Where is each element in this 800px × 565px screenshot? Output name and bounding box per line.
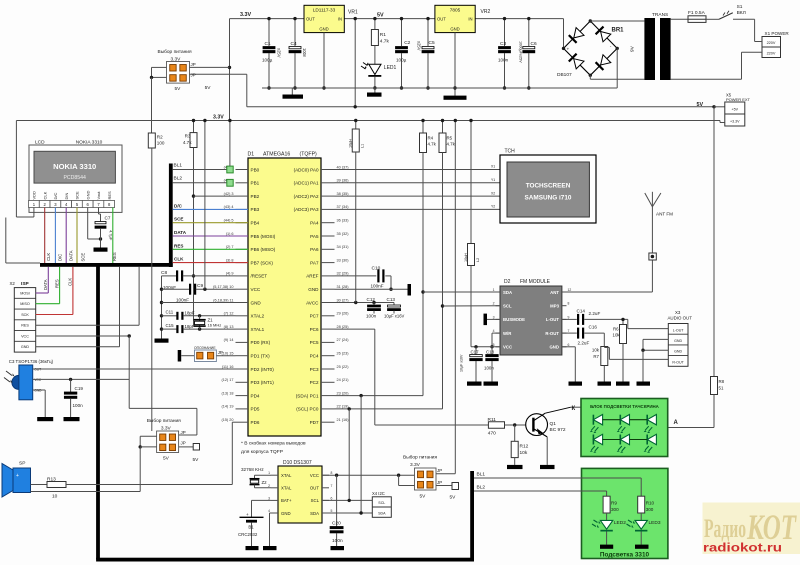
svg-text:AREF: AREF: [306, 274, 318, 279]
regulator VR2 7805: [435, 5, 491, 32]
svg-text:(9) 14: (9) 14: [224, 338, 234, 342]
wire transformer secondary top: [671, 18, 688, 20]
svg-text:OUT: OUT: [306, 17, 315, 22]
node K: [572, 406, 576, 412]
wire BL1 to PB0: [173, 163, 227, 170]
node 3.3V label rail: [213, 115, 224, 121]
svg-text:10µF x16V: 10µF x16V: [460, 354, 464, 372]
resistor R2 100: [148, 133, 165, 148]
crystal Z1 16 MHz: [194, 316, 222, 329]
wire VCC select net: [129, 336, 197, 435]
wire ISP MOSI: [36, 267, 49, 293]
capacitor C3 100n: [498, 17, 511, 90]
svg-text:C9: C9: [197, 283, 203, 289]
svg-text:23 (20): 23 (20): [337, 391, 350, 395]
wire LCD CLK (pin2): [44, 208, 46, 264]
svg-text:DATA: DATA: [69, 250, 74, 261]
svg-text:R-OUT: R-OUT: [545, 331, 559, 336]
svg-text:+3.3V: +3.3V: [730, 120, 740, 124]
svg-text:OUT: OUT: [437, 17, 446, 22]
svg-text:40 (37): 40 (37): [337, 165, 350, 169]
wire TSOP VCC: [33, 378, 130, 381]
capacitor C14 2.2uF: [562, 309, 628, 325]
wire ISP MISO: [36, 267, 60, 304]
wire 3.3V to PB0 pad: [228, 119, 231, 166]
svg-text:300: 300: [646, 507, 654, 512]
svg-text:(ADC3) PA3: (ADC3) PA3: [294, 207, 319, 212]
svg-text:470: 470: [488, 431, 496, 437]
svg-text:Z2: Z2: [262, 480, 268, 485]
svg-text:220V: 220V: [767, 41, 776, 45]
LED LED3: [627, 513, 661, 549]
svg-text:PCD8544: PCD8544: [63, 175, 86, 181]
inductor L2 10uH: [464, 119, 480, 347]
svg-text:AVCC: AVCC: [306, 300, 319, 305]
svg-text:33 (30): 33 (30): [337, 258, 350, 262]
svg-text:PC3: PC3: [310, 367, 319, 372]
svg-text:JP: JP: [191, 73, 196, 78]
svg-text:SCL: SCL: [311, 498, 320, 503]
module backlight 3310 (Подсветка 3310): [582, 468, 668, 558]
svg-text:CLK: CLK: [68, 278, 73, 286]
svg-text:(4) 9: (4) 9: [226, 272, 234, 276]
wire ISP SCK: [36, 267, 73, 315]
svg-text:AUDIO OUT: AUDIO OUT: [668, 315, 693, 320]
svg-text:GND: GND: [21, 345, 30, 349]
svg-text:SDA: SDA: [503, 290, 512, 295]
IC D2 FM MODULE: [500, 279, 562, 355]
svg-text:PB1: PB1: [251, 181, 260, 186]
connector X2 ISP: [10, 281, 36, 352]
resistor R10 300: [638, 478, 655, 513]
svg-text:(13) 18: (13) 18: [221, 391, 233, 395]
svg-text:30 (27): 30 (27): [337, 298, 350, 302]
svg-text:К: К: [572, 406, 576, 412]
svg-text:R5: R5: [447, 136, 453, 141]
switch S1 ВКЛ: [719, 4, 755, 19]
node 5V label top: [377, 12, 384, 18]
svg-text:R9: R9: [611, 501, 617, 506]
svg-text:2.2uF: 2.2uF: [578, 341, 590, 346]
wire jumper to speaker return: [139, 447, 141, 492]
ground bar LED1: [367, 88, 382, 97]
svg-text:GND: GND: [450, 26, 459, 31]
svg-text:ANT: ANT: [550, 290, 559, 295]
svg-text:(6,18,39) 11: (6,18,39) 11: [213, 298, 233, 302]
svg-text:6: 6: [568, 343, 570, 347]
wire SCL down to DS1307: [348, 409, 350, 502]
wire PA2 to touchscreen: [335, 195, 501, 197]
svg-text:(ADC2) PA2: (ADC2) PA2: [294, 194, 319, 199]
svg-text:10k: 10k: [613, 333, 621, 338]
node 3.3V label top: [240, 12, 251, 18]
svg-text:RES: RES: [55, 279, 60, 288]
svg-text:BAT+: BAT+: [281, 498, 292, 503]
svg-text:5V: 5V: [450, 495, 457, 501]
svg-text:+5V: +5V: [732, 108, 739, 112]
svg-text:R3: R3: [185, 134, 191, 139]
svg-text:F1 0.5A: F1 0.5A: [688, 10, 706, 16]
svg-text:100n: 100n: [366, 314, 377, 319]
svg-text:36 (33): 36 (33): [337, 219, 350, 223]
svg-text:(14) 19: (14) 19: [221, 405, 233, 409]
svg-text:VDD: VDD: [32, 191, 37, 200]
svg-text:34 (31): 34 (31): [337, 245, 350, 249]
node wire labels below bus: [43, 278, 73, 290]
svg-text:PD1 (TX): PD1 (TX): [251, 354, 271, 359]
svg-text:PD2 (INT0): PD2 (INT0): [251, 367, 275, 372]
svg-text:8: 8: [331, 471, 333, 475]
module LCD NOKIA 3310: [29, 139, 122, 212]
svg-text:Подсветка 3310: Подсветка 3310: [600, 552, 650, 559]
svg-text:SCL: SCL: [503, 304, 512, 309]
resistor R1 4.7k: [371, 17, 389, 46]
svg-text:PD5: PD5: [251, 407, 260, 412]
capacitor C9 100nF vcc: [162, 283, 236, 303]
wire 3.3V top rail: [230, 18, 564, 20]
wire L-OUT to X3: [628, 319, 669, 328]
svg-text:3: 3: [493, 315, 495, 319]
wire D/C row: [173, 203, 248, 209]
svg-text:POWER EXT: POWER EXT: [726, 97, 751, 102]
capacitor C19 100n: [64, 379, 84, 421]
wire SCL vertical: [441, 153, 444, 409]
svg-text:C18: C18: [486, 350, 495, 355]
svg-text:+: +: [16, 473, 19, 479]
svg-text:JP: JP: [181, 430, 186, 435]
resistor R8 51: [711, 107, 725, 428]
IC D10 pin labels: [268, 471, 332, 516]
wire thick bus BL vertical right of LCD: [169, 164, 173, 268]
svg-text:RES: RES: [174, 243, 183, 248]
svg-text:LCD: LCD: [35, 139, 45, 145]
connector X4 I2C: [372, 491, 391, 517]
svg-text:100n: 100n: [484, 366, 494, 371]
wire 3.3V rail: [16, 121, 724, 123]
svg-text:X2: X2: [10, 281, 16, 286]
capacitor C20 100n: [330, 475, 344, 550]
svg-text:SCL: SCL: [378, 501, 385, 505]
svg-text:NOKIA 3310: NOKIA 3310: [53, 162, 96, 171]
LCD pin labels: [32, 191, 112, 200]
svg-text:100n: 100n: [498, 58, 509, 63]
svg-text:RES: RES: [21, 324, 29, 328]
svg-text:4.7k: 4.7k: [447, 142, 456, 147]
wire DATA row: [173, 230, 248, 236]
svg-text:VCC: VCC: [34, 378, 42, 382]
wire LCD DIN (pin4): [65, 208, 67, 264]
svg-text:RES: RES: [112, 252, 117, 261]
svg-text:XTAL1: XTAL1: [251, 327, 265, 332]
svg-text:100nF: 100nF: [371, 284, 384, 289]
connector X3 AUDIO OUT: [668, 310, 693, 366]
ground bar xtal: [155, 339, 169, 343]
svg-text:4.7k: 4.7k: [428, 142, 437, 147]
svg-text:(43) 4: (43) 4: [224, 205, 234, 209]
svg-text:R4: R4: [428, 136, 434, 141]
capacitor C12 100n: [366, 297, 381, 319]
svg-text:38 (35): 38 (35): [337, 192, 350, 196]
svg-text:300: 300: [611, 507, 619, 512]
IC D2 pin labels: [493, 288, 572, 350]
wire GND row chip: [162, 302, 236, 304]
svg-text:3.3V: 3.3V: [240, 12, 251, 18]
note TQFP: [241, 441, 306, 456]
svg-text:C1: C1: [265, 41, 271, 47]
svg-text:LED2: LED2: [614, 520, 626, 526]
svg-text:PC5: PC5: [310, 340, 319, 345]
svg-text:PA5: PA5: [310, 234, 319, 239]
svg-text:6: 6: [331, 496, 333, 500]
svg-text:PC4: PC4: [310, 354, 319, 359]
svg-text:7805: 7805: [450, 8, 461, 13]
ground rail bar left: [283, 88, 304, 99]
svg-text:ATMEGA16: ATMEGA16: [263, 152, 290, 158]
wire 3.3V drop to jumper: [228, 19, 231, 121]
svg-text:3: 3: [268, 496, 270, 500]
svg-text:PB6 (MISO): PB6 (MISO): [251, 247, 276, 252]
svg-text:5V: 5V: [193, 457, 200, 463]
svg-text:C15: C15: [166, 323, 175, 328]
svg-text:R12: R12: [520, 444, 529, 450]
wire ISP GND: [36, 267, 120, 347]
wire decoupling left vertical: [160, 276, 163, 339]
wire LCD D/C (pin3): [54, 208, 56, 264]
svg-text:ANT FM: ANT FM: [656, 212, 673, 217]
svg-text:C6: C6: [531, 41, 537, 47]
svg-text:3.3V: 3.3V: [410, 462, 421, 468]
svg-text:Выбор питания: Выбор питания: [147, 418, 181, 424]
svg-text:C3: C3: [500, 41, 506, 47]
wire BR1 plus to 7805 IN: [563, 19, 565, 49]
svg-text:5: 5: [331, 509, 333, 513]
svg-text:18pF: 18pF: [185, 324, 195, 329]
svg-text:(SCL) PC0: (SCL) PC0: [296, 407, 319, 412]
svg-text:GND: GND: [319, 26, 328, 31]
svg-text:10: 10: [52, 494, 58, 500]
wire PD6 to speaker net: [232, 422, 235, 484]
IC D1 ATMEGA16 TQFP: [248, 152, 322, 436]
ground FM BUSMODE: [484, 314, 501, 326]
svg-text:VCC: VCC: [310, 473, 319, 478]
svg-text:37 (34): 37 (34): [337, 205, 350, 209]
wire R2 down to lower jumper: [151, 148, 153, 431]
svg-text:PA7: PA7: [310, 260, 319, 265]
wire PA3 to touchscreen: [335, 208, 501, 210]
wire BR1 minus to ground rail: [616, 48, 618, 88]
svg-text:29 (26): 29 (26): [337, 312, 350, 316]
svg-text:CLK: CLK: [46, 253, 51, 261]
svg-text:C10: C10: [372, 266, 381, 272]
svg-text:16 MHz: 16 MHz: [208, 323, 222, 328]
svg-text:PB7 (SCK): PB7 (SCK): [251, 260, 274, 265]
wire BL2 to R9: [474, 485, 607, 491]
svg-text:VR2: VR2: [481, 9, 491, 15]
svg-text:MOSI: MOSI: [20, 292, 29, 296]
svg-text:5V: 5V: [205, 85, 212, 91]
wire FM SDA: [423, 291, 500, 293]
svg-text:DATA: DATA: [43, 279, 48, 290]
svg-text:X3: X3: [675, 310, 681, 315]
resistor R12 10k: [507, 425, 529, 469]
wire SCE row: [173, 217, 248, 223]
svg-text:DATA: DATA: [174, 230, 187, 235]
svg-text:26 (23): 26 (23): [337, 352, 350, 356]
svg-text:R-OUT: R-OUT: [672, 360, 684, 364]
svg-text:DIC: DIC: [58, 254, 63, 261]
svg-text:(5,17,38) 10: (5,17,38) 10: [213, 285, 233, 289]
svg-text:+: +: [246, 512, 249, 517]
svg-text:21 (16): 21 (16): [337, 418, 350, 422]
svg-text:(SDA) PC1: (SDA) PC1: [296, 393, 319, 398]
module backlight block touchscreen (БЛОК ПОДСВЕТКИ ТАЧСКРИНА): [581, 399, 668, 457]
svg-text:Q1: Q1: [550, 421, 557, 427]
ground 7805: [444, 96, 467, 100]
wire FM GND: [562, 347, 582, 386]
wire SDA vertical: [421, 153, 424, 396]
svg-text:(2) 7: (2) 7: [226, 245, 234, 249]
svg-text:VCC: VCC: [503, 345, 512, 350]
wire DS1307 SCL row: [322, 499, 372, 502]
svg-text:B1: B1: [248, 525, 254, 530]
svg-text:35 (32): 35 (32): [337, 232, 350, 236]
wire FM VCC row: [471, 345, 500, 348]
svg-text:DB107: DB107: [557, 72, 572, 78]
svg-text:+: +: [567, 48, 570, 53]
svg-text:7: 7: [331, 484, 333, 488]
wire CLK row: [173, 257, 248, 263]
svg-text:PB2: PB2: [251, 194, 260, 199]
svg-text:SCE: SCE: [174, 217, 183, 222]
svg-text:XTAL2: XTAL2: [251, 314, 265, 319]
capacitor C8 100nF reset: [161, 270, 236, 290]
wire PC1 SDA row: [335, 394, 424, 397]
svg-text:C3 TSOP1736 (36кГц): C3 TSOP1736 (36кГц): [9, 359, 54, 364]
svg-text:100µ: 100µ: [262, 58, 273, 63]
svg-text:L1: L1: [361, 144, 365, 148]
svg-text:31 (28): 31 (28): [337, 285, 350, 289]
svg-text:BL2: BL2: [174, 176, 183, 182]
svg-text:220V: 220V: [767, 52, 776, 56]
svg-text:GND: GND: [308, 287, 319, 292]
antenna ANT FM: [645, 192, 673, 292]
svg-text:24 (21): 24 (21): [337, 378, 350, 382]
svg-text:SDA: SDA: [378, 511, 386, 515]
jumper JP power select speaker: [139, 418, 200, 463]
resistor R11 470: [488, 417, 532, 437]
svg-text:D/C: D/C: [53, 193, 58, 200]
svg-text:10µH: 10µH: [349, 139, 353, 148]
svg-text:5V: 5V: [377, 12, 384, 18]
svg-text:1000µFx25V: 1000µFx25V: [519, 41, 523, 63]
capacitor C18 100n: [484, 347, 499, 386]
svg-text:(44) 5: (44) 5: [224, 219, 234, 223]
LCD screen PCD8544: [34, 151, 115, 183]
svg-text:R7: R7: [593, 354, 599, 359]
svg-text:4: 4: [493, 329, 495, 333]
svg-text:W/R: W/R: [503, 331, 512, 336]
svg-text:R10: R10: [646, 501, 655, 506]
svg-text:10k: 10k: [520, 450, 528, 456]
svg-text:100n: 100n: [73, 403, 84, 408]
wire R-OUT to X3: [604, 348, 668, 360]
svg-text:GND: GND: [549, 345, 559, 350]
svg-text:18pF: 18pF: [185, 311, 195, 316]
svg-text:JP: JP: [437, 480, 442, 485]
wire PC0 SCL row: [335, 407, 443, 410]
wire TSOP GND: [33, 390, 54, 421]
svg-text:(11) 16: (11) 16: [222, 365, 234, 369]
svg-text:* В скобках номера выводов: * В скобках номера выводов: [241, 441, 306, 447]
capacitor C10 100nF aref: [335, 266, 393, 291]
svg-text:GND: GND: [674, 339, 682, 343]
svg-text:BL1: BL1: [174, 163, 183, 169]
regulator VR1 LD1117-33: [304, 5, 358, 32]
bridge rectifier BR1 DB107: [557, 19, 624, 78]
svg-text:X4 I2C: X4 I2C: [372, 491, 385, 496]
svg-text:C14: C14: [577, 309, 586, 314]
module TCH touchscreen outer: [500, 149, 596, 224]
svg-text:БЛОК ПОДСВЕТКИ ТАЧСКРИНА: БЛОК ПОДСВЕТКИ ТАЧСКРИНА: [590, 404, 660, 409]
wire LD1117 GND to ground rail: [322, 33, 325, 90]
svg-text:10µH: 10µH: [464, 253, 468, 262]
svg-text:SCE: SCE: [81, 253, 86, 262]
svg-text:LED3: LED3: [649, 520, 661, 526]
svg-text:5V: 5V: [175, 86, 182, 92]
svg-text:2: 2: [493, 302, 495, 306]
inductor L1 10uH: [349, 119, 365, 303]
wire PB2: [194, 195, 236, 197]
capacitor C11 18pF: [162, 310, 236, 320]
svg-text:7: 7: [568, 329, 570, 333]
svg-text:GND: GND: [281, 511, 291, 516]
jumper JP PD1 (ОПОЗНАНИЕ): [178, 346, 236, 362]
capacitor C6 1000uFx25V: [519, 17, 537, 90]
svg-text:5V: 5V: [697, 102, 704, 108]
svg-text:IN: IN: [468, 17, 472, 22]
svg-text:C12: C12: [367, 297, 376, 302]
svg-text:PD7: PD7: [310, 420, 319, 425]
svg-text:VCC: VCC: [21, 335, 29, 339]
svg-text:IN: IN: [338, 17, 342, 22]
svg-text:Радио: Радио: [704, 514, 746, 543]
capacitor C15 18pF: [162, 323, 236, 333]
resistor R5 4.7k: [439, 119, 456, 153]
svg-text:Z1: Z1: [208, 317, 214, 322]
svg-text:LED1: LED1: [384, 65, 397, 71]
wire DS1307 VCC row: [322, 474, 415, 477]
svg-text:JP: JP: [181, 441, 186, 446]
svg-text:C7: C7: [105, 216, 111, 221]
svg-text:MISO: MISO: [20, 302, 30, 306]
svg-text:12: 12: [568, 288, 572, 292]
resistor R3 4.7k: [183, 119, 197, 148]
svg-text:CRC2032: CRC2032: [238, 532, 258, 537]
svg-text:(8) 13: (8) 13: [224, 325, 234, 329]
svg-text:PB5 (MOSI): PB5 (MOSI): [251, 234, 276, 239]
svg-text:100: 100: [157, 141, 165, 146]
wire PA1 to touchscreen: [335, 182, 501, 184]
wire 5V select down to 5V rail: [246, 74, 248, 107]
svg-text:A: A: [674, 420, 679, 426]
svg-text:51: 51: [719, 386, 724, 391]
svg-text:C4: C4: [291, 41, 297, 47]
node 5V label rail: [697, 102, 704, 108]
wire X3 GND cells to ground: [637, 339, 669, 385]
wire PA0 to touchscreen: [335, 169, 501, 171]
svg-text:LD1117-33: LD1117-33: [313, 8, 336, 13]
svg-text:radiokot.ru: radiokot.ru: [703, 541, 782, 555]
